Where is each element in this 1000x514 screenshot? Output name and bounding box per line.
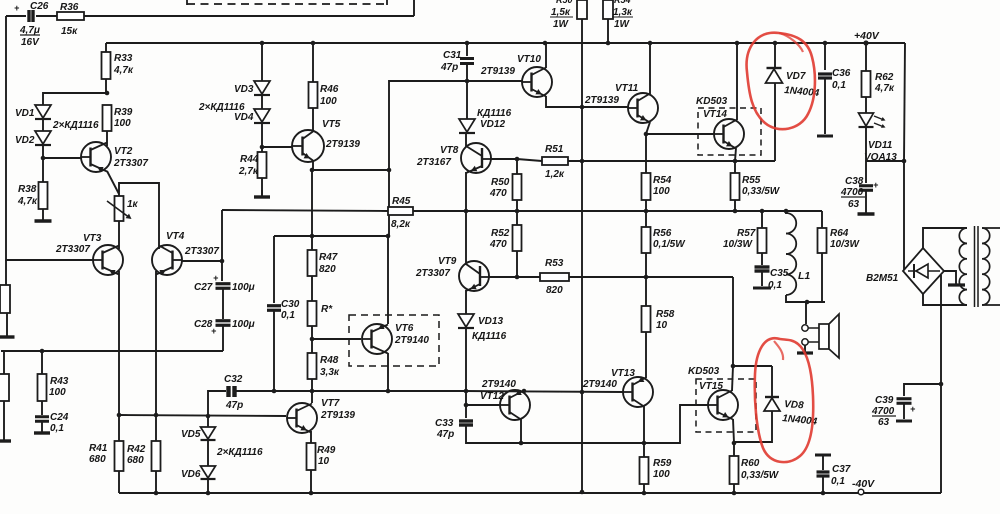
wire left edge column lower bbox=[5, 260, 7, 285]
svg-text:VT6: VT6 bbox=[395, 323, 414, 334]
svg-text:C33: C33 bbox=[435, 418, 454, 429]
svg-text:100: 100 bbox=[49, 387, 66, 398]
resistor R42 bbox=[127, 441, 161, 471]
svg-text:C28: C28 bbox=[194, 319, 213, 330]
svg-text:1,3к: 1,3к bbox=[613, 7, 633, 18]
ground (C24) bbox=[34, 430, 50, 433]
resistor R55 bbox=[731, 173, 781, 200]
wire node C riser to mid rail bbox=[221, 210, 223, 261]
wire speaker lower terminal to ground bbox=[804, 345, 806, 352]
ground (R38) bbox=[35, 217, 52, 221]
svg-text:1,2к: 1,2к bbox=[545, 169, 565, 180]
svg-text:С31: С31 bbox=[443, 50, 462, 61]
wire VT6 emitter down bbox=[387, 353, 389, 391]
wire VD3 to VD4 bbox=[261, 95, 263, 109]
svg-text:1,5к: 1,5к bbox=[551, 7, 571, 18]
wire VT11 emitter lead bbox=[646, 122, 650, 134]
svg-text:R41: R41 bbox=[89, 443, 108, 454]
svg-text:VT13: VT13 bbox=[611, 368, 635, 379]
node AJ (VT14 collector on rail) bbox=[735, 41, 740, 46]
wire VD8 upper lead bbox=[771, 366, 773, 396]
resistor R(1.5k top,cut) bbox=[550, 0, 587, 30]
wire mid rail to VT9 base bbox=[465, 211, 467, 265]
transistor VT13 bbox=[582, 368, 653, 407]
svg-text:C39: C39 bbox=[875, 395, 894, 406]
resistor R52 bbox=[489, 225, 522, 251]
node C (VT4 base/C27/mid rail) bbox=[220, 259, 225, 264]
node V (VT8 emitter on mid rail) bbox=[464, 209, 469, 214]
wire R42 to bottom rail bbox=[155, 471, 157, 493]
node AM (VD7 on +40V rail) bbox=[773, 41, 778, 46]
wire VT5 emitter lead bbox=[312, 160, 314, 170]
node M (R43 top) bbox=[40, 349, 45, 354]
svg-text:VD4: VD4 bbox=[234, 112, 254, 123]
svg-text:KD503: KD503 bbox=[688, 366, 720, 377]
resistor R64 bbox=[818, 228, 861, 253]
wire VT13 emitter lead bbox=[643, 406, 645, 443]
wire C31 top lead bbox=[466, 43, 468, 56]
svg-text:2Т9139: 2Т9139 bbox=[584, 95, 619, 106]
resistor R58 bbox=[642, 306, 675, 332]
ground (left lower) bbox=[0, 438, 11, 441]
capacitor C39 bbox=[871, 395, 916, 428]
svg-text:B2M51: B2M51 bbox=[866, 273, 899, 284]
wire VT14 emitter lead bbox=[735, 148, 736, 161]
wire R54 top lead bbox=[645, 134, 647, 173]
node R42 bottom bbox=[154, 491, 159, 496]
node VD6 bottom bbox=[206, 491, 211, 496]
resistor R(1.3k top,cut) bbox=[603, 0, 633, 30]
svg-text:2Т9140: 2Т9140 bbox=[481, 379, 516, 390]
node AR (R57 top) bbox=[760, 209, 765, 214]
svg-text:R44: R44 bbox=[240, 154, 259, 165]
node (feedback line/x582 crossing) bbox=[580, 390, 585, 395]
wire C38 to ground bbox=[865, 191, 867, 210]
wire VD1 to VD2 bbox=[42, 119, 44, 131]
wire C24 to ground bbox=[41, 422, 43, 430]
node R (+40V rail/C31) bbox=[465, 41, 470, 46]
svg-text:R36: R36 bbox=[60, 2, 79, 13]
svg-text:0,33/5W: 0,33/5W bbox=[741, 470, 780, 481]
resistor R41 bbox=[89, 441, 124, 471]
wire R64 bottom lead bbox=[821, 253, 823, 302]
wire top input rail bbox=[6, 15, 26, 17]
ground (left upper) bbox=[0, 332, 15, 337]
svg-text:R59: R59 bbox=[653, 458, 672, 469]
svg-text:КД1116: КД1116 bbox=[477, 108, 512, 119]
svg-text:VT15: VT15 bbox=[699, 381, 723, 392]
bridge rectifier B2M51 bbox=[866, 248, 944, 294]
svg-text:4700: 4700 bbox=[871, 406, 895, 417]
node AV (VT15 collector/VD8 top) bbox=[731, 364, 736, 369]
svg-text:R57: R57 bbox=[737, 228, 756, 239]
svg-text:4,7к: 4,7к bbox=[17, 196, 38, 207]
node P (C32/VD5 tap) bbox=[206, 414, 211, 419]
capacitor C28 bbox=[194, 319, 255, 336]
svg-text:1W: 1W bbox=[614, 19, 631, 30]
svg-text:47р: 47р bbox=[436, 429, 454, 440]
svg-text:4700: 4700 bbox=[840, 187, 864, 198]
node J (R*/R48/VT6 base) bbox=[310, 337, 315, 342]
wire R62 to VD11 bbox=[865, 97, 867, 113]
resistor R46 bbox=[309, 82, 339, 108]
svg-text:C36: C36 bbox=[832, 68, 851, 79]
svg-text:VT5: VT5 bbox=[322, 119, 341, 130]
svg-text:2,7к: 2,7к bbox=[238, 166, 259, 177]
wire VT4 emitter down bbox=[155, 271, 157, 415]
wire R53 to node X bbox=[569, 276, 647, 278]
wire R56 to node X bbox=[645, 253, 647, 277]
svg-text:0,1/5W: 0,1/5W bbox=[653, 239, 686, 250]
wire main +40V rail bbox=[106, 42, 905, 44]
svg-text:C32: C32 bbox=[224, 374, 243, 385]
wire VD8 top wire bbox=[733, 365, 772, 367]
svg-text:R33: R33 bbox=[114, 53, 133, 64]
node T (VT8 collector/R50) bbox=[515, 157, 520, 162]
red circle around VD7 bbox=[747, 33, 815, 130]
svg-text:63: 63 bbox=[848, 199, 860, 210]
svg-text:2Т3307: 2Т3307 bbox=[113, 158, 148, 169]
svg-text:2Т9140: 2Т9140 bbox=[394, 335, 429, 346]
wire VD6 to bottom rail bbox=[207, 480, 209, 493]
ground (transformer CT) bbox=[948, 283, 965, 286]
C37 top bar bbox=[815, 454, 831, 457]
wire VT9 emitter down bbox=[465, 290, 467, 314]
svg-text:10/3W: 10/3W bbox=[723, 239, 753, 250]
wire C30 to feedback rail bbox=[273, 311, 275, 391]
dashed box (VT14 KD503) bbox=[698, 108, 761, 155]
capacitor C38 bbox=[840, 176, 879, 210]
wire R57 top lead bbox=[761, 211, 763, 228]
svg-text:VT2: VT2 bbox=[114, 146, 133, 157]
node L (R48/VT7 collector on feedback rail) bbox=[310, 389, 315, 394]
resistor R45 bbox=[388, 196, 413, 230]
wire C37 to bottom rail bbox=[822, 477, 824, 493]
wire R50 top lead bbox=[516, 159, 518, 174]
wire VD4 to node E bbox=[261, 123, 263, 147]
wire R58 top lead bbox=[645, 277, 647, 306]
node Y (VD13/feedback rail) bbox=[464, 389, 469, 394]
svg-text:100: 100 bbox=[114, 118, 131, 129]
wire left edge drop to VT3 base bbox=[5, 16, 7, 261]
wire VD12 to VT8 base bbox=[465, 133, 467, 147]
node F (+40V rail / R46) bbox=[311, 41, 316, 46]
wire node E to R44 bbox=[261, 147, 263, 152]
svg-text:R42: R42 bbox=[127, 444, 146, 455]
wire R47 to R* bbox=[311, 276, 313, 301]
svg-text:2×КД1116: 2×КД1116 bbox=[52, 120, 99, 131]
node AH (VT11 emitter/R54) bbox=[644, 132, 649, 137]
svg-text:VT3: VT3 bbox=[83, 233, 102, 244]
wire C28 down to left rail bbox=[222, 326, 224, 351]
transistor VT7 bbox=[287, 398, 355, 433]
wire VT6 collector up bbox=[387, 236, 389, 324]
node AI (R54/R56 on mid rail) bbox=[644, 209, 649, 214]
transistor VT5 bbox=[292, 119, 360, 162]
wire feedback rail to VT13 base bbox=[464, 391, 623, 392]
svg-text:VT4: VT4 bbox=[166, 231, 185, 242]
wire top rail C26 to R36 bbox=[36, 15, 57, 17]
svg-text:470: 470 bbox=[489, 239, 507, 250]
ground (R44) bbox=[254, 190, 270, 197]
svg-text:R60: R60 bbox=[741, 458, 760, 469]
resistor R59 bbox=[640, 457, 672, 484]
svg-text:R46: R46 bbox=[320, 84, 339, 95]
wire R33 top lead bbox=[105, 43, 107, 52]
wire R64 top lead bbox=[821, 211, 823, 228]
diode VD3 bbox=[234, 81, 270, 95]
wire VT7 emitter lead bbox=[310, 431, 312, 443]
speaker bbox=[802, 314, 839, 358]
svg-text:47р: 47р bbox=[225, 400, 243, 411]
capacitor C35 bbox=[755, 267, 789, 291]
svg-text:R58: R58 bbox=[656, 309, 675, 320]
wire VT3 emitter down bbox=[118, 271, 120, 415]
wire bridge right to ground stem bbox=[944, 271, 956, 284]
label 2xKD1116 (VD3,VD4) bbox=[198, 102, 245, 113]
wire left lower resistor leads bbox=[3, 351, 5, 374]
wire VD13 to node Y bbox=[465, 328, 467, 391]
wire 1.3k resistor lead to +40V rail bbox=[607, 19, 609, 43]
svg-text:R50: R50 bbox=[556, 0, 573, 5]
node B (VD2/R38/VT2 base) bbox=[41, 156, 46, 161]
wire mid rail y211 right of R45 bbox=[413, 210, 822, 212]
resistor R* (select) bbox=[308, 301, 334, 326]
svg-text:VD12: VD12 bbox=[480, 119, 505, 130]
transistor VT12 bbox=[480, 379, 530, 420]
wire C30 branch top bbox=[273, 236, 275, 303]
capacitor C36 bbox=[818, 68, 851, 91]
wire node A to VD1 chain bbox=[43, 93, 107, 105]
transformer T1 bbox=[959, 226, 1000, 307]
svg-text:+: + bbox=[211, 326, 217, 336]
capacitor C30 bbox=[267, 299, 300, 321]
node AL (R55 on mid rail) bbox=[733, 209, 738, 214]
svg-text:16V: 16V bbox=[21, 37, 40, 48]
ground (C38) bbox=[858, 210, 875, 214]
svg-text:C37: C37 bbox=[832, 464, 851, 475]
wire VT15 emitter lead bbox=[733, 419, 734, 443]
wire node B to VT2 base bbox=[43, 157, 81, 159]
wire R60 to bottom rail bbox=[733, 484, 735, 493]
resistor R51 bbox=[542, 144, 568, 180]
wire R58 to VT13 collector bbox=[645, 332, 647, 378]
svg-text:VD3: VD3 bbox=[234, 84, 254, 95]
node AD (VT10 collector on rail) bbox=[543, 41, 548, 46]
node AN (C36 on rail) bbox=[823, 41, 828, 46]
resistor R48 bbox=[308, 353, 340, 379]
svg-text:47р: 47р bbox=[440, 62, 458, 73]
wire emitter bus y443 bbox=[521, 442, 644, 444]
svg-text:100: 100 bbox=[653, 186, 670, 197]
node AG (VT11 collector on rail) bbox=[648, 41, 653, 46]
wire VT5 emitter column down bbox=[311, 170, 313, 236]
diode VD12 bbox=[459, 108, 512, 133]
node AW (VT15 emitter/R60) bbox=[732, 441, 737, 446]
wire R46 to VT5 collector bbox=[312, 108, 314, 132]
node R49 bottom bbox=[309, 491, 314, 496]
svg-text:R*: R* bbox=[321, 304, 333, 315]
wire C36 top lead bbox=[824, 43, 826, 70]
label 2xKD1116 (VD1,VD2) bbox=[52, 120, 99, 131]
wire R60 top lead bbox=[733, 443, 735, 456]
node AA (VT12 collector) bbox=[522, 389, 527, 394]
wire R55 to mid rail bbox=[734, 200, 736, 211]
wire base wire y416 bbox=[119, 415, 286, 416]
svg-text:0,1: 0,1 bbox=[831, 476, 845, 487]
capacitor C27 bbox=[194, 273, 255, 293]
wire L1 bottom wire bbox=[786, 295, 825, 302]
svg-text:VT11: VT11 bbox=[615, 83, 639, 94]
wire VT15 collector riser bbox=[732, 277, 734, 366]
wire node B to R38 bbox=[42, 158, 44, 182]
wire R48 to feedback rail bbox=[311, 379, 313, 391]
node W (VT9 collector/R52/R53) bbox=[515, 275, 520, 280]
resistor R36 bbox=[57, 2, 84, 37]
transistor VT2 bbox=[81, 142, 148, 172]
svg-text:100: 100 bbox=[653, 469, 670, 480]
svg-text:VD11: VD11 bbox=[868, 140, 893, 151]
svg-text:4,7μ: 4,7μ bbox=[19, 25, 40, 36]
capacitor C32 bbox=[224, 374, 243, 411]
wire node J to VT6 base bbox=[312, 338, 361, 340]
wire L1 top lead bbox=[785, 211, 787, 214]
svg-text:820: 820 bbox=[546, 285, 563, 296]
svg-text:VD6: VD6 bbox=[181, 469, 201, 480]
wire rail to R46 bbox=[312, 43, 314, 82]
svg-text:+: + bbox=[14, 3, 20, 13]
svg-text:2Т3307: 2Т3307 bbox=[184, 246, 219, 257]
wire node X to VT15 collector riser bbox=[647, 276, 733, 278]
diode VD13 bbox=[458, 314, 507, 342]
svg-text:L1: L1 bbox=[798, 270, 810, 282]
wire VT3 base wire bbox=[6, 259, 93, 261]
wire emitter bus corner to VT15 base bbox=[644, 405, 708, 443]
capacitor C26 bbox=[14, 1, 49, 48]
wire left resistor to ground bbox=[6, 313, 8, 332]
node G (VT5 emitter) bbox=[310, 168, 315, 173]
wire R33 to node A bbox=[105, 79, 107, 93]
svg-text:R43: R43 bbox=[50, 376, 69, 387]
potentiometer 1k bbox=[107, 196, 139, 221]
wire R47 top lead bbox=[311, 236, 313, 250]
svg-text:1к: 1к bbox=[127, 199, 139, 210]
wire rail to VD3 bbox=[261, 43, 263, 81]
svg-text:VD2: VD2 bbox=[15, 135, 35, 146]
label fragment (cut resistor names) bbox=[556, 0, 631, 5]
svg-text:KD503: KD503 bbox=[696, 96, 728, 107]
resistor R60 bbox=[730, 456, 780, 484]
transistor VT4 bbox=[152, 231, 219, 275]
diode VD1 bbox=[15, 105, 51, 119]
node A (R33/R39/VD1) bbox=[105, 91, 110, 96]
resistor R54 bbox=[642, 173, 672, 200]
wire R42 top lead bbox=[155, 415, 157, 441]
node AO (+40V terminal) bbox=[854, 30, 880, 46]
wire VD5 chain top bbox=[207, 416, 209, 427]
svg-text:C30: C30 bbox=[281, 299, 300, 310]
svg-text:VT14: VT14 bbox=[703, 109, 727, 120]
svg-text:VD7: VD7 bbox=[786, 71, 806, 82]
-40V terminal bbox=[852, 478, 875, 495]
wire R43 to C24 bbox=[41, 401, 43, 415]
wire R44 to ground bbox=[261, 178, 263, 196]
svg-text:VD13: VD13 bbox=[478, 316, 503, 327]
wire left rail y351 bbox=[1, 350, 223, 352]
dashed box (VT15 KD503) bbox=[696, 379, 756, 432]
svg-text:+40V: +40V bbox=[854, 30, 880, 42]
resistor R33 bbox=[102, 52, 134, 79]
transistor VT15 bbox=[688, 366, 738, 420]
wire VD12 chain from node S bbox=[466, 81, 468, 119]
node K (y236/x388 corner) bbox=[386, 234, 391, 239]
svg-text:63: 63 bbox=[878, 417, 890, 428]
wire C33 to emitter bus bbox=[466, 426, 521, 443]
svg-text:+: + bbox=[213, 273, 219, 283]
inductor L1 bbox=[786, 213, 810, 295]
C35 open end bar bbox=[753, 287, 771, 290]
svg-text:2Т9139: 2Т9139 bbox=[325, 139, 360, 150]
svg-text:R53: R53 bbox=[545, 258, 564, 269]
wire R59 top lead bbox=[643, 443, 645, 457]
wire VT8 collector wire bbox=[491, 158, 517, 160]
node I (VT5 emitter/R47) bbox=[310, 234, 315, 239]
node H (x389/y170 corner) bbox=[387, 168, 392, 173]
resistor R(left,cut) bbox=[0, 285, 10, 313]
svg-text:0,33/5W: 0,33/5W bbox=[742, 186, 781, 197]
wire VT10 base wire bbox=[467, 80, 522, 82]
node x582 bottom bbox=[580, 490, 585, 495]
node AQ (C39 tap) bbox=[939, 382, 944, 387]
svg-text:C27: C27 bbox=[194, 282, 213, 293]
resistor R50 bbox=[489, 174, 522, 200]
resistor R43 bbox=[38, 374, 69, 401]
svg-text:10: 10 bbox=[318, 456, 330, 467]
dashed box (top, cut off) bbox=[187, 0, 387, 5]
node C37 bottom bbox=[821, 491, 826, 496]
red circle around VD8 bbox=[755, 338, 813, 462]
node AT (speaker tap) bbox=[805, 300, 810, 305]
wire VD2 to node B bbox=[42, 145, 44, 158]
svg-text:R51: R51 bbox=[545, 144, 564, 155]
svg-text:VT10: VT10 bbox=[517, 54, 541, 65]
wire C39 bottom lead bbox=[903, 404, 905, 419]
svg-text:100μ: 100μ bbox=[232, 319, 255, 330]
wire pot top branch to VT4 collector bbox=[119, 183, 159, 249]
wire C38/VD11 wire to right rail bbox=[866, 160, 904, 162]
svg-text:R45: R45 bbox=[392, 196, 411, 207]
svg-text:VD1: VD1 bbox=[15, 108, 35, 119]
svg-text:+: + bbox=[873, 180, 879, 190]
resistor R44 bbox=[238, 152, 267, 178]
wire node Y to VT12 base node bbox=[465, 391, 467, 405]
node AS (L1 top) bbox=[784, 209, 789, 214]
svg-text:R54: R54 bbox=[653, 175, 672, 186]
svg-text:КД1116: КД1116 bbox=[472, 331, 507, 342]
diode VD4 bbox=[234, 109, 270, 123]
diode VD2 bbox=[15, 131, 51, 146]
wire R54 to mid rail bbox=[645, 200, 647, 211]
wire box-top wire y236 bbox=[274, 235, 389, 237]
resistor R38 bbox=[17, 182, 48, 209]
svg-text:680: 680 bbox=[89, 454, 106, 465]
node Z (VT12 base tap) bbox=[464, 403, 469, 408]
svg-text:VD8: VD8 bbox=[784, 399, 805, 411]
svg-text:R38: R38 bbox=[18, 184, 37, 195]
svg-text:0,1: 0,1 bbox=[281, 310, 295, 321]
svg-text:R48: R48 bbox=[320, 355, 339, 366]
wire R62 top lead bbox=[865, 43, 867, 71]
